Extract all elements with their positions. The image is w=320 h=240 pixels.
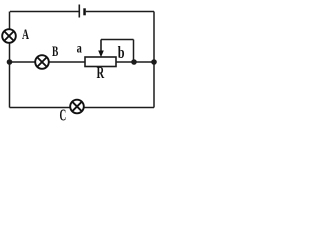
resistor R box — [85, 57, 116, 67]
wire top-right segment — [86, 11, 154, 13]
wire left vertical — [9, 12, 11, 108]
svg-text:C: C — [60, 106, 67, 125]
svg-text:A: A — [22, 27, 29, 43]
wire bottom — [10, 107, 155, 109]
wire middle horizontal — [10, 61, 155, 63]
junction dot right — [151, 59, 157, 65]
svg-text:b: b — [118, 43, 125, 62]
lamp B — [35, 55, 49, 69]
wire top-left segment — [10, 11, 79, 13]
svg-text:B: B — [52, 44, 58, 60]
wire slider top horizontal — [101, 39, 134, 41]
junction dot slider — [131, 59, 137, 65]
battery cell short thick plate — [83, 8, 86, 15]
wire slider right vertical — [133, 40, 135, 63]
lamp A — [2, 29, 16, 43]
svg-text:a: a — [77, 42, 82, 57]
svg-text:R: R — [97, 63, 105, 82]
wire right vertical — [153, 12, 155, 108]
junction dot left — [7, 59, 13, 65]
rheostat slider arrow — [98, 40, 104, 58]
lamp C — [70, 100, 84, 114]
battery cell long plate — [78, 5, 80, 18]
